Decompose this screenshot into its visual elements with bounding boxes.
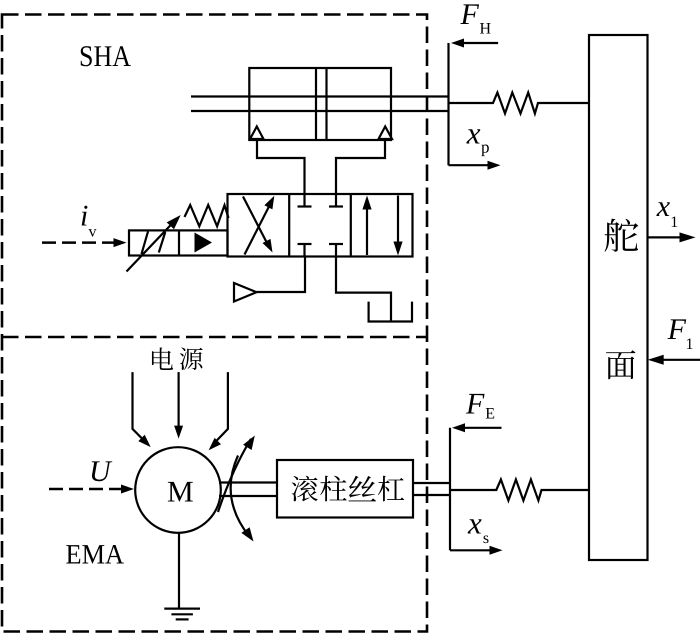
svg-text:EMA: EMA: [66, 539, 125, 570]
svg-text:x: x: [466, 116, 481, 151]
svg-text:SHA: SHA: [79, 40, 131, 73]
svg-text:x: x: [467, 505, 482, 540]
svg-text:p: p: [481, 138, 490, 157]
svg-text:U: U: [89, 455, 113, 488]
svg-text:v: v: [89, 224, 97, 241]
svg-text:x: x: [656, 190, 671, 223]
svg-text:F: F: [460, 0, 480, 31]
svg-text:M: M: [167, 475, 194, 508]
svg-text:H: H: [480, 21, 492, 38]
svg-text:F: F: [667, 313, 687, 346]
svg-text:F: F: [465, 387, 485, 420]
svg-text:1: 1: [670, 214, 678, 231]
svg-text:1: 1: [686, 336, 694, 353]
svg-text:s: s: [483, 530, 489, 547]
svg-text:E: E: [485, 406, 495, 423]
svg-text:i: i: [80, 200, 88, 233]
